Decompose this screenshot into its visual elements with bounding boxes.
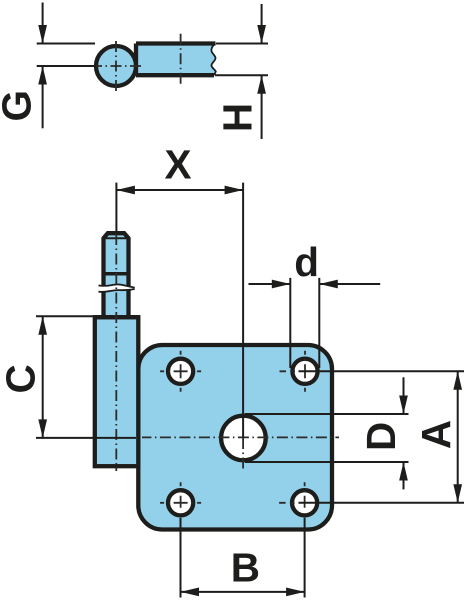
dimension D: extension lines	[245, 413, 409, 415]
handle / lever body	[95, 317, 139, 466]
corner hole bottom-right	[279, 482, 317, 515]
dimension G line + arrows	[38, 3, 47, 129]
extension line H bottom (bar underside)	[215, 74, 268, 76]
eye circle centrelines	[96, 65, 141, 67]
pin shoulder line	[104, 272, 129, 276]
corner hole top-right	[280, 351, 318, 392]
pin chamfer line	[104, 237, 128, 239]
corner hole top-left	[160, 351, 201, 392]
plate horizontal centreline	[142, 436, 339, 438]
break (wavy) edge of bar	[211, 44, 215, 76]
dimension A: extension lines	[299, 370, 465, 372]
svg-text:D: D	[358, 422, 404, 451]
pin / handle vertical centreline	[115, 234, 117, 471]
extension line G bottom (eye centre)	[37, 65, 94, 67]
threaded pin (front view, broken)	[99, 233, 135, 317]
dimension B line + arrows	[181, 588, 305, 597]
svg-text:G: G	[0, 90, 39, 122]
corner hole bottom-left	[160, 482, 201, 515]
svg-text:X: X	[164, 142, 191, 188]
dimension d: extension lines	[289, 278, 291, 368]
svg-text:B: B	[231, 545, 260, 591]
extension line G/H top	[37, 43, 95, 45]
svg-text:H: H	[214, 103, 260, 132]
dimension X: extension lines	[115, 183, 117, 232]
dimension C: extension lines	[36, 315, 95, 317]
bolt-hole centreline in side view	[180, 34, 182, 84]
handle top edge (over pin)	[95, 315, 139, 319]
centre hole	[221, 416, 266, 461]
dimension H line + arrows	[257, 4, 266, 139]
centre hole lower centreline	[242, 438, 244, 470]
dimension d line + arrows	[249, 280, 381, 289]
dimension B: extension lines	[180, 518, 182, 598]
dimension D line + arrows	[399, 377, 408, 489]
dimension A line + arrows	[453, 371, 462, 503]
svg-text:d: d	[294, 239, 319, 285]
dimension X line + arrows	[116, 186, 243, 195]
pin break band	[99, 284, 135, 292]
dimension C line + arrows	[38, 316, 47, 438]
pin eye circle (side view)	[96, 46, 136, 86]
side-view plate bar (broken at right)	[136, 44, 216, 76]
svg-text:C: C	[0, 364, 43, 393]
svg-text:A: A	[413, 420, 459, 449]
mounting plate (rounded square)	[138, 345, 332, 530]
